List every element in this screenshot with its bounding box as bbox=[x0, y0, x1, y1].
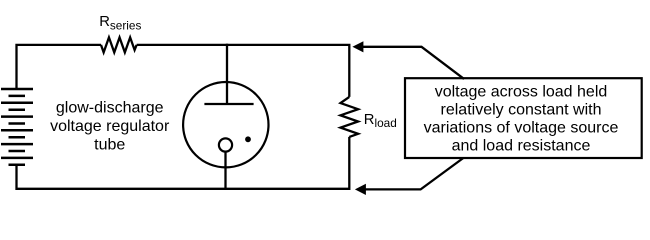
svg-text:Rload: Rload bbox=[364, 112, 397, 130]
tube U1 anode plate bar bbox=[204, 103, 253, 105]
resistor R_load bbox=[341, 97, 359, 137]
tube U1 envelope circle bbox=[183, 82, 268, 167]
tube U1 anode stem bbox=[226, 44, 228, 104]
wire right-bottom and bottom wire back to battery bbox=[17, 137, 350, 189]
svg-text:glow-discharge: glow-discharge bbox=[56, 100, 164, 117]
svg-text:and load resistance: and load resistance bbox=[452, 138, 591, 155]
battery B1 plates bbox=[1, 89, 33, 165]
annotation box bbox=[405, 78, 642, 158]
svg-text:tube: tube bbox=[94, 137, 125, 154]
resistor R_series bbox=[101, 37, 137, 52]
tube U1 cathode stem bbox=[224, 152, 226, 189]
svg-text:voltage across load held: voltage across load held bbox=[435, 83, 608, 100]
tube U1 cathode circle bbox=[219, 138, 232, 151]
arrow to bottom wire bbox=[365, 158, 463, 189]
annotation text bbox=[424, 83, 619, 154]
wire top (right segment) with right corner down to R_load bbox=[137, 45, 350, 97]
arrow to top wire bbox=[363, 47, 464, 79]
svg-text:variations of voltage source: variations of voltage source bbox=[424, 119, 619, 136]
svg-text:voltage regulator: voltage regulator bbox=[50, 118, 170, 135]
svg-text:Rseries: Rseries bbox=[99, 14, 141, 33]
wire top (left segment) with left corner down to battery bbox=[17, 45, 102, 89]
tube U1 gas dot bbox=[245, 136, 251, 142]
svg-text:relatively constant with: relatively constant with bbox=[441, 101, 602, 118]
